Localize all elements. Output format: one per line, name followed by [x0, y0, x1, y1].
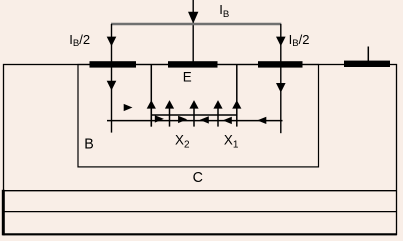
left IB/2 arrowhead lower: [107, 81, 117, 91]
svg-text:IB/2: IB/2: [289, 32, 310, 49]
svg-text:IB/2: IB/2: [69, 32, 90, 49]
emitter junction line: [151, 114, 237, 116]
injection arrow stem 1: [150, 102, 152, 127]
injection arrowhead 5: [232, 100, 241, 109]
branch wire (gray horizontal): [111, 23, 281, 25]
substrate line: [4, 211, 397, 213]
right IB/2 arrowhead lower: [276, 83, 286, 93]
injection arrow stem 4: [217, 102, 219, 127]
lateral flow arrowhead right 1: [155, 115, 164, 122]
contact bar left base: [90, 61, 137, 67]
left IB/2 wire: [111, 24, 113, 133]
base region box (B): [78, 65, 319, 167]
injection arrowhead 1: [147, 100, 156, 109]
emitter edge line left: [150, 65, 152, 127]
injection arrowhead 4: [213, 100, 222, 109]
injection arrowhead 3: [189, 100, 198, 109]
collector body outline (outer box): [4, 65, 397, 235]
left IB/2 arrowhead upper: [107, 37, 117, 47]
injection arrow stem 3: [193, 102, 195, 127]
buried layer line: [4, 190, 397, 192]
collector contact tick: [367, 47, 369, 62]
contact bar collector (far right): [344, 61, 390, 67]
IB feed wire (top vertical): [192, 0, 194, 62]
right IB/2 wire: [280, 24, 282, 133]
contact bar right base: [258, 61, 303, 67]
emitter edge line right: [236, 65, 238, 127]
floating base-current arrowhead left (points right): [124, 104, 133, 111]
injection arrow stem 2: [169, 102, 171, 127]
contact bar emitter E: [168, 61, 218, 67]
svg-text:C: C: [193, 170, 203, 186]
svg-text:B: B: [84, 136, 94, 152]
thick left edge segment: [2, 190, 5, 236]
IB arrowhead: [188, 12, 198, 24]
lateral flow arrowhead left 2: [223, 117, 232, 124]
svg-text:E: E: [183, 70, 192, 85]
base-current arrowhead right (points left): [257, 117, 266, 124]
right IB/2 arrowhead upper: [276, 37, 286, 47]
bottom thick edge of outer box: [3, 233, 397, 235]
base current baseline: [107, 120, 283, 122]
injection arrowhead 2: [165, 100, 174, 109]
lateral flow arrowhead left 1: [200, 116, 209, 123]
lateral flow arrowhead right 2: [178, 116, 187, 123]
